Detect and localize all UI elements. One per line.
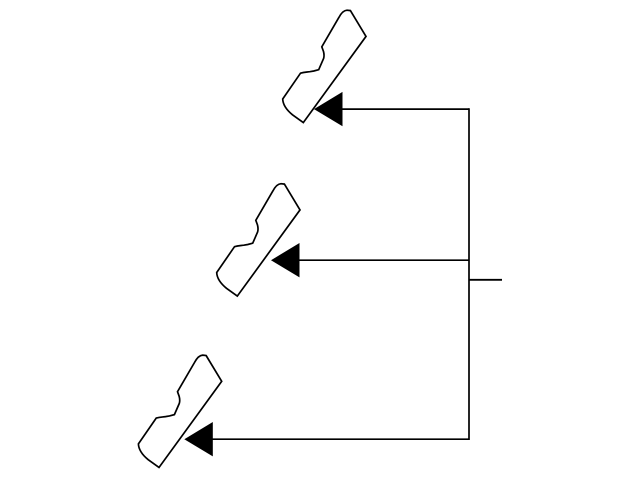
wire: vertical bus line xyxy=(468,108,470,440)
phone 1 (top) xyxy=(283,10,366,122)
wire: top horizontal line xyxy=(341,108,469,110)
arrowhead to phone 2 xyxy=(271,243,300,277)
wire: bottom horizontal line xyxy=(212,438,469,440)
phone 3 (bottom) xyxy=(138,355,221,467)
wire: middle horizontal line xyxy=(298,259,469,261)
wire: right stub xyxy=(469,279,502,281)
phone 2 (middle) xyxy=(217,184,300,296)
arrowhead to phone 3 xyxy=(184,422,213,456)
arrowhead to phone 1 xyxy=(314,92,343,126)
